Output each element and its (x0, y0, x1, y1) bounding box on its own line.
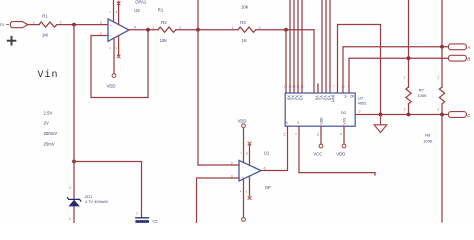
svg-text:+: + (110, 24, 112, 28)
wire: vertical to R8 (441, 0, 443, 87)
svg-text:A: A (467, 45, 470, 50)
wire: mux pin INH (329, 0, 331, 93)
svg-text:VDD: VDD (107, 84, 116, 89)
svg-text:VDD: VDD (336, 152, 345, 157)
wire: vertical to R7 (408, 0, 410, 87)
wire: U1 pin2 to R2/R3 node (198, 164, 239, 166)
svg-text:1M: 1M (42, 32, 48, 37)
node: ground junction (379, 113, 383, 117)
svg-text:1: 1 (437, 76, 439, 80)
svg-text:7: 7 (109, 10, 111, 14)
svg-text:11: 11 (301, 85, 304, 89)
node Vin junction (72, 23, 76, 27)
node: X0 junction (284, 28, 288, 32)
wire: R2 to R3 (176, 29, 238, 31)
resistor R1 1M (33, 14, 62, 38)
wire: U5 feedback loop (91, 30, 148, 98)
svg-text:250mV: 250mV (44, 131, 58, 136)
svg-text:B: B (349, 95, 354, 98)
wire: mux pin X3 (297, 0, 299, 93)
resistor R2 10K (152, 20, 181, 43)
node: output/feedback junction (146, 28, 150, 32)
svg-text:1: 1 (152, 26, 154, 30)
op-amp U1 (231, 118, 271, 221)
svg-text:2: 2 (69, 186, 71, 190)
svg-text:4: 4 (240, 189, 242, 193)
node: R7 bottom junction (407, 113, 411, 117)
wire: mux pin to ground loop (338, 25, 381, 115)
wire: vertical node line x198 (197, 0, 199, 165)
wire: mux pin X0 (285, 30, 287, 93)
svg-text:1: 1 (136, 211, 138, 215)
wire: U5 output (129, 29, 158, 31)
svg-text:25mV: 25mV (44, 141, 55, 146)
svg-text:1: 1 (246, 189, 248, 193)
wire: mux pin A to connector A (343, 47, 448, 93)
svg-text:13: 13 (288, 85, 292, 89)
connector A (448, 44, 470, 50)
svg-text:Vin: Vin (38, 69, 59, 81)
svg-text:3: 3 (100, 21, 102, 25)
U1 pin 1 stub with no-connect (249, 176, 251, 196)
svg-text:100K: 100K (423, 138, 433, 143)
mux bottom pin numbers (283, 132, 344, 136)
power pin VDD (336, 126, 346, 156)
wire: mux pin Y0 corner (313, 30, 315, 93)
wire: R8 junction down (441, 115, 443, 223)
svg-text:C: C (467, 113, 470, 118)
connector B (448, 55, 470, 61)
U5 pin 1 stub with no-connect (118, 36, 120, 56)
wire: Vin vertical (73, 25, 75, 162)
svg-text:100K: 100K (417, 93, 427, 98)
wire: mux pin X2 (293, 0, 295, 93)
wire: R3 to mux inputs (256, 29, 314, 31)
svg-text:3: 3 (294, 133, 298, 135)
svg-text:16: 16 (316, 132, 320, 136)
svg-text:8: 8 (339, 133, 343, 135)
svg-text:B: B (467, 56, 470, 61)
svg-text:7: 7 (333, 85, 335, 89)
input port In (0, 22, 28, 28)
mux bottom internal pin names (286, 117, 347, 125)
wire: mux pin B to connector B (349, 58, 448, 93)
wire: mux pin Y1 (317, 84, 319, 93)
svg-text:2V: 2V (44, 121, 49, 126)
node: R8 bottom junction (440, 113, 444, 117)
svg-text:4.7V 400mW: 4.7V 400mW (85, 199, 108, 204)
svg-text:U1: U1 (264, 150, 270, 155)
svg-text:1: 1 (33, 21, 35, 25)
U1 pin 7 stub to VDD (243, 128, 245, 163)
svg-text:1: 1 (232, 26, 234, 30)
U5 pin 4 stub to VDD (113, 38, 115, 74)
U1 pin 4 stub to circle (243, 179, 245, 218)
svg-text:1: 1 (69, 217, 71, 221)
svg-text:5: 5 (317, 85, 319, 89)
svg-text:U5: U5 (134, 8, 140, 13)
wire: mux pin Y3 (325, 0, 327, 93)
svg-text:3: 3 (359, 110, 361, 114)
wire: R1 to U5 pin3 (57, 24, 108, 26)
svg-text:6: 6 (329, 85, 331, 89)
wire: U1 pin3 to bottom (197, 178, 240, 223)
svg-text:12: 12 (284, 85, 288, 89)
wire: mux pin X1 (289, 0, 291, 93)
svg-text:In: In (0, 22, 4, 27)
zener ZD1 (67, 162, 108, 224)
svg-text:R8: R8 (425, 133, 431, 138)
svg-text:OP: OP (265, 185, 271, 190)
svg-text:A: A (343, 95, 348, 98)
svg-text:8: 8 (116, 10, 118, 14)
svg-text:6: 6 (264, 167, 266, 171)
node: zener junction (72, 160, 76, 164)
svg-text:R3: R3 (240, 20, 246, 25)
capacitor C5 (135, 211, 158, 223)
svg-text:7: 7 (240, 152, 242, 156)
svg-text:2: 2 (404, 108, 406, 112)
resistor R8 100K (423, 76, 444, 144)
svg-text:4: 4 (325, 85, 327, 89)
svg-text:DG: DG (341, 111, 346, 115)
resistor R7 100K (404, 76, 427, 115)
svg-text:X3: X3 (298, 95, 303, 101)
svg-text:10K: 10K (160, 38, 168, 43)
svg-text:R1: R1 (158, 8, 164, 13)
svg-text:VDD: VDD (238, 118, 247, 123)
node: B line junction (407, 56, 411, 60)
resistor R3 1K (232, 20, 261, 43)
wire: mux output to connector C (355, 114, 448, 116)
svg-text:1: 1 (313, 85, 315, 89)
U5 pin 7 stub (113, 0, 115, 22)
plus marker (8, 37, 16, 45)
svg-text:2.5V: 2.5V (44, 110, 53, 115)
svg-text:ZD1: ZD1 (85, 194, 93, 199)
node: A line junction (440, 45, 444, 49)
svg-text:VDD: VDD (320, 117, 324, 125)
U5 pin 8 stub with no-connect (118, 2, 120, 25)
svg-text:VCC: VCC (313, 152, 322, 157)
svg-text:INH: INH (330, 95, 335, 102)
wire: mux pin Y2 (321, 0, 323, 93)
svg-text:R2: R2 (161, 20, 167, 25)
wire: mux Y common to stub end (299, 126, 375, 175)
wire: to C5 (74, 162, 142, 218)
svg-text:C5: C5 (152, 219, 158, 223)
svg-text:1: 1 (116, 46, 118, 50)
node: R2/R3 junction to U1 (196, 28, 200, 32)
svg-text:1: 1 (404, 76, 406, 80)
svg-text:15: 15 (296, 85, 300, 89)
mux top internal pin names (286, 95, 354, 102)
wire: mux X common to U1 output (261, 126, 288, 170)
ground (374, 115, 387, 133)
U1 pin 8 stub with no-connect (249, 145, 251, 166)
svg-text:9: 9 (348, 85, 350, 89)
mux U7 4052 (283, 85, 368, 136)
wire: mux pin 11 (301, 0, 303, 93)
power pin VCC (313, 126, 323, 156)
op-amp U5 OPA1 (100, 0, 147, 89)
mux top pin numbers (284, 85, 350, 89)
wire: port to R1 (28, 24, 39, 26)
svg-text:R1: R1 (42, 14, 48, 19)
svg-text:1K: 1K (242, 38, 247, 43)
svg-text:10: 10 (341, 85, 345, 89)
svg-text:2: 2 (437, 108, 439, 112)
svg-text:8: 8 (246, 152, 248, 156)
svg-text:4: 4 (109, 46, 111, 50)
svg-text:4052: 4052 (358, 101, 368, 106)
svg-text:OPA1: OPA1 (135, 0, 147, 4)
svg-text:2: 2 (321, 85, 323, 89)
svg-text:10K: 10K (241, 5, 249, 10)
connector C (448, 112, 470, 118)
svg-text:VSS: VSS (343, 117, 347, 124)
svg-text:13: 13 (283, 132, 287, 136)
